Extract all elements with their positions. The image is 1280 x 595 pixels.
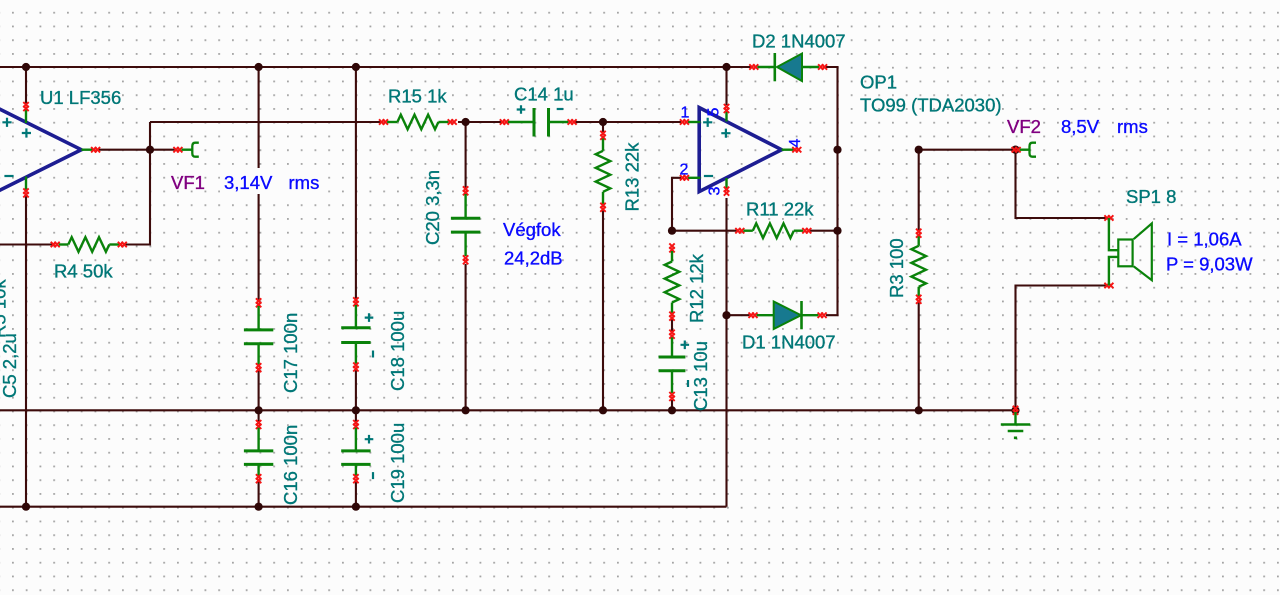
svg-text:U1 LF356: U1 LF356 (40, 87, 121, 108)
svg-text:R4 50k: R4 50k (54, 261, 113, 282)
svg-text:R3 100: R3 100 (886, 238, 907, 298)
svg-text:8,5V: 8,5V (1061, 116, 1100, 137)
svg-text:1: 1 (681, 105, 690, 122)
svg-text:P = 9,03W: P = 9,03W (1166, 254, 1253, 275)
svg-text:2: 2 (680, 162, 689, 179)
svg-text:C18 100u: C18 100u (387, 311, 408, 391)
svg-text:C19 100u: C19 100u (387, 423, 408, 503)
svg-text:rms: rms (289, 172, 320, 193)
svg-text:24,2dB: 24,2dB (504, 248, 563, 269)
svg-text:C13 10u: C13 10u (690, 341, 711, 411)
svg-text:R15 1k: R15 1k (388, 86, 447, 107)
svg-text:3: 3 (707, 187, 724, 196)
svg-text:C5 2,2u: C5 2,2u (0, 333, 20, 398)
svg-text:3,14V: 3,14V (224, 172, 273, 193)
svg-text:VF2: VF2 (1007, 116, 1041, 137)
svg-text:C16 100n: C16 100n (280, 425, 301, 505)
svg-text:R5 10k: R5 10k (0, 279, 10, 338)
svg-text:C14 1u: C14 1u (514, 84, 574, 105)
svg-text:C20 3,3n: C20 3,3n (422, 170, 443, 245)
svg-text:D1 1N4007: D1 1N4007 (742, 332, 836, 353)
svg-text:R13 22k: R13 22k (622, 142, 643, 212)
svg-text:R11 22k: R11 22k (746, 199, 814, 220)
svg-text:4: 4 (787, 139, 804, 148)
svg-text:C17 100n: C17 100n (280, 313, 301, 393)
svg-text:R12 12k: R12 12k (686, 253, 707, 323)
svg-text:VF1: VF1 (171, 172, 205, 193)
svg-text:TO99 (TDA2030): TO99 (TDA2030) (860, 95, 1002, 116)
svg-text:rms: rms (1117, 116, 1148, 137)
svg-text:5: 5 (706, 108, 723, 117)
svg-text:D2 1N4007: D2 1N4007 (752, 30, 846, 51)
svg-text:I = 1,06A: I = 1,06A (1167, 229, 1242, 250)
svg-text:Végfok: Végfok (503, 219, 561, 240)
svg-text:OP1: OP1 (860, 72, 897, 93)
svg-text:SP1 8: SP1 8 (1126, 186, 1176, 207)
